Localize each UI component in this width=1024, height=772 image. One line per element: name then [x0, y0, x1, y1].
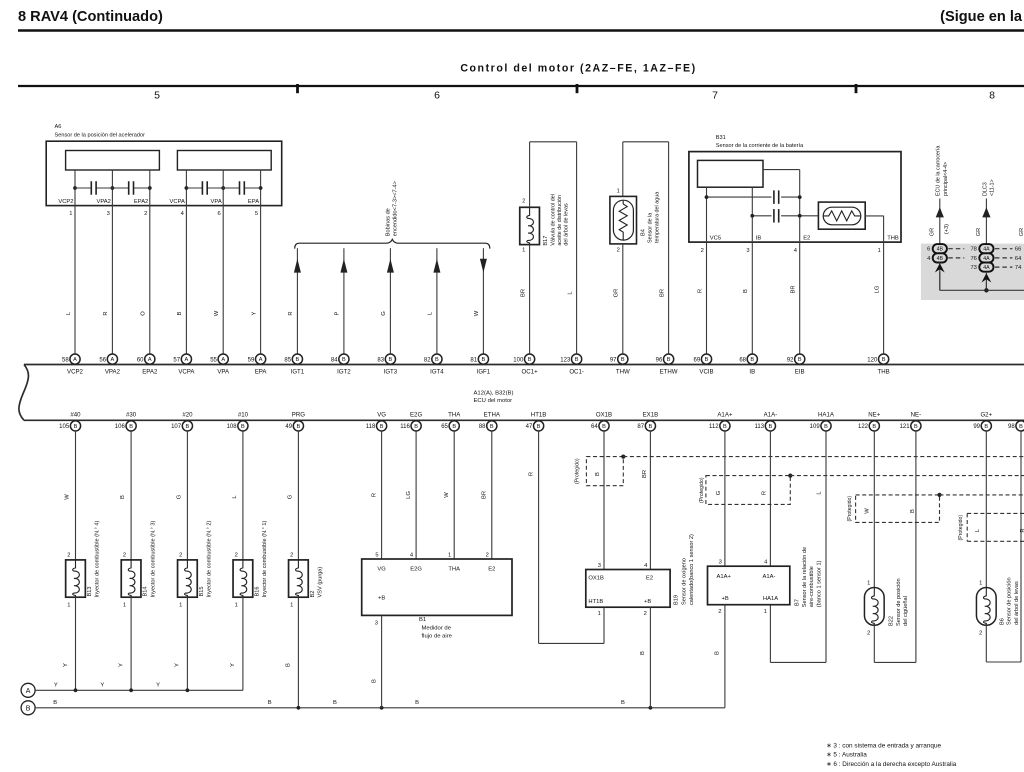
shaded connector panel [921, 244, 1024, 300]
svg-text:99: 99 [973, 424, 980, 430]
svg-text:B2: B2 [310, 591, 316, 598]
svg-text:85: 85 [284, 357, 291, 363]
B4 thermistor zigzag [619, 201, 627, 240]
svg-text:1: 1 [179, 603, 182, 609]
svg-text:R: R [528, 472, 534, 476]
A6 junction EPA [259, 186, 263, 190]
wire OC1- [576, 142, 578, 354]
wire B13 return [75, 597, 77, 690]
svg-text:Bobinas de: Bobinas de [385, 208, 391, 236]
svg-text:Sensor de posición: Sensor de posición [896, 578, 902, 626]
wire A6 VCP2 [74, 170, 76, 354]
wire IB internal [751, 187, 753, 354]
svg-text:+B: +B [644, 599, 651, 605]
svg-text:∗ 5 : Australia: ∗ 5 : Australia [826, 752, 867, 759]
wire to DLC3 [985, 199, 987, 245]
svg-text:THB: THB [878, 369, 890, 376]
svg-text:2: 2 [235, 552, 238, 558]
svg-text:112: 112 [709, 424, 719, 430]
terminal 68 IB [747, 354, 757, 364]
svg-text:Inyector de combustible (N.° 4: Inyector de combustible (N.° 4) [95, 521, 101, 598]
svg-text:1: 1 [522, 248, 525, 254]
wire B6 return [985, 625, 987, 662]
svg-text:81: 81 [470, 357, 477, 363]
svg-text:B: B [914, 424, 918, 430]
svg-text:5: 5 [375, 553, 378, 559]
svg-text:1: 1 [979, 580, 982, 586]
svg-text:GR: GR [929, 228, 935, 236]
wire 4A drop [985, 282, 987, 291]
svg-text:B: B [715, 651, 721, 655]
wire ETHW [668, 142, 670, 354]
svg-text:3: 3 [746, 248, 749, 254]
svg-text:8: 8 [989, 90, 995, 102]
wire B22 return [873, 625, 875, 662]
svg-text:THB: THB [887, 236, 899, 242]
node B [21, 701, 35, 715]
wire A6 EPA2 [149, 170, 151, 354]
svg-text:B: B [297, 424, 301, 430]
svg-text:G: G [381, 311, 387, 316]
svg-text:B: B [649, 424, 653, 430]
svg-text:2: 2 [486, 553, 489, 559]
svg-text:Control del motor (2AZ–FE, 1A: Control del motor (2AZ–FE, 1AZ–FE) [460, 63, 696, 75]
wire B1 E2G [415, 431, 417, 559]
svg-text:B1: B1 [419, 617, 426, 623]
arrow to DLC3 [982, 207, 990, 217]
junction bus A B15 [186, 688, 190, 692]
svg-text:B: B [984, 424, 988, 430]
terminal 99 G2+ [981, 421, 991, 431]
svg-text:106: 106 [115, 424, 126, 430]
svg-text:R: R [697, 289, 703, 293]
A6 capacitor between VCP2 and VPA2 [75, 187, 91, 189]
continuation 64 [995, 257, 1013, 259]
svg-text:Sensor de la corriente de la b: Sensor de la corriente de la batería [716, 143, 804, 149]
svg-text:A: A [148, 357, 152, 363]
terminal 57 VCPA [181, 354, 191, 364]
svg-text:B: B [602, 424, 606, 430]
svg-text:B19: B19 [674, 595, 680, 605]
svg-text:HT1B: HT1B [531, 412, 547, 419]
svg-text:B: B [452, 424, 456, 430]
svg-text:A: A [221, 357, 225, 363]
junction E2 row1 [798, 195, 802, 199]
svg-text:VCIB: VCIB [699, 369, 713, 376]
svg-text:2: 2 [144, 211, 147, 217]
svg-text:EX1B: EX1B [643, 412, 659, 419]
svg-text:B: B [120, 495, 126, 499]
terminal 121 NE- [911, 421, 921, 431]
terminal 109 HA1A [821, 421, 831, 431]
svg-text:LG: LG [406, 491, 412, 499]
svg-text:107: 107 [171, 424, 182, 430]
svg-text:B: B [910, 509, 916, 513]
terminal 58 VCP2 [70, 354, 80, 364]
A6 potentiometer block 2 [177, 151, 271, 171]
svg-text:2: 2 [290, 552, 293, 558]
svg-text:2: 2 [617, 247, 620, 253]
sensor B7 box [708, 566, 790, 605]
wire B1 E2 [491, 431, 493, 559]
svg-text:Inyector de combustible (N.° 3: Inyector de combustible (N.° 3) [150, 521, 156, 598]
svg-text:121: 121 [900, 424, 911, 430]
terminal 112 A1A+ [720, 421, 730, 431]
svg-text:1: 1 [764, 609, 767, 615]
svg-text:EPA: EPA [248, 199, 259, 205]
svg-text:B: B [342, 357, 346, 363]
svg-text:+B: +B [378, 595, 385, 601]
connector 4B pin 6 [933, 244, 947, 253]
wire B1 THA [453, 431, 455, 559]
sensor B4 box [610, 196, 637, 244]
svg-text:78: 78 [970, 247, 976, 253]
svg-text:R: R [762, 491, 768, 495]
svg-text:Y: Y [251, 311, 257, 315]
terminal 123 OC1- [572, 354, 582, 364]
svg-text:2: 2 [867, 630, 870, 636]
svg-text:Y: Y [156, 682, 160, 688]
svg-text:2: 2 [67, 552, 70, 558]
shield junction [937, 493, 941, 497]
svg-text:B: B [882, 357, 886, 363]
wire A6 EPA [260, 170, 262, 354]
svg-text:60: 60 [137, 357, 144, 363]
svg-text:(Protegido): (Protegido) [958, 515, 964, 541]
arrow IGT4 (to coils) [433, 259, 440, 273]
svg-text:OX1B: OX1B [588, 576, 604, 582]
terminal 106 #30 [126, 421, 136, 431]
svg-text:56: 56 [99, 357, 106, 363]
svg-text:B: B [241, 424, 245, 430]
svg-text:IB: IB [756, 236, 762, 242]
arrow IGF1 (from coils) [480, 259, 487, 273]
svg-text:84: 84 [331, 357, 338, 363]
svg-text:E2: E2 [646, 576, 653, 582]
svg-text:A1A-: A1A- [763, 574, 776, 580]
svg-text:EIB: EIB [795, 369, 805, 376]
svg-text:IGT3: IGT3 [384, 369, 398, 376]
svg-text:VCPA: VCPA [178, 369, 195, 376]
svg-text:B4: B4 [641, 229, 647, 236]
shield drain dashed to next page [940, 494, 1024, 496]
svg-text:3: 3 [719, 560, 722, 566]
svg-text:B: B [667, 357, 671, 363]
svg-text:1: 1 [617, 189, 620, 195]
svg-text:B: B [129, 424, 133, 430]
terminal 59 EPA [256, 354, 266, 364]
continuation 66 [995, 248, 1013, 250]
dashed link 4B row 1 [948, 248, 964, 250]
svg-text:A1A+: A1A+ [717, 412, 733, 419]
svg-text:82: 82 [424, 357, 431, 363]
svg-text:8 RAV4 (Continuado): 8 RAV4 (Continuado) [18, 9, 163, 25]
terminal 60 EPA2 [145, 354, 155, 364]
svg-text:B: B [872, 424, 876, 430]
connector 4B pin 4 [933, 253, 947, 262]
svg-text:GR: GR [1019, 228, 1024, 236]
junction bus B B19 [649, 706, 653, 710]
sensor B31 outer box [689, 152, 901, 243]
svg-text:B: B [1019, 424, 1023, 430]
B31 shunt resistor capsule [823, 207, 861, 225]
svg-text:Medidor de: Medidor de [422, 625, 452, 631]
svg-text:116: 116 [400, 424, 410, 430]
svg-text:P: P [335, 311, 341, 315]
junction panel bus [984, 288, 988, 292]
svg-text:Sensor de la: Sensor de la [648, 213, 654, 243]
svg-text:2: 2 [644, 611, 647, 617]
svg-text:IGT2: IGT2 [337, 369, 351, 376]
svg-text:Sensor de la posición del acel: Sensor de la posición del acelerador [55, 133, 146, 139]
svg-text:OX1B: OX1B [596, 412, 612, 419]
svg-text:122: 122 [858, 424, 869, 430]
svg-text:74: 74 [1015, 265, 1022, 271]
svg-text:IGT4: IGT4 [430, 369, 444, 376]
svg-text:VCPA: VCPA [170, 199, 185, 205]
terminal 108 #10 [238, 421, 248, 431]
arrow IGT1 (to coils) [294, 259, 301, 273]
svg-text:1: 1 [598, 611, 601, 617]
svg-text:#40: #40 [70, 412, 81, 419]
svg-text:NE-: NE- [911, 412, 922, 419]
svg-text:B: B [621, 357, 625, 363]
B31 inner module [698, 160, 764, 187]
svg-text:A6: A6 [55, 124, 62, 130]
junction E2 row2 [798, 214, 802, 218]
svg-text:59: 59 [248, 357, 255, 363]
svg-text:B: B [575, 357, 579, 363]
terminal 105 #40 [70, 421, 80, 431]
svg-text:G2+: G2+ [980, 412, 992, 419]
junction bus B B2 [297, 706, 301, 710]
A6 junction VPA [221, 186, 225, 190]
svg-text:Y: Y [54, 682, 58, 688]
A6 junction VPA2 [111, 186, 115, 190]
terminal 122 NE+ [869, 421, 879, 431]
svg-text:THA: THA [448, 566, 460, 572]
svg-text:B14: B14 [143, 587, 149, 597]
svg-text:A: A [259, 357, 263, 363]
svg-text:1: 1 [448, 553, 451, 559]
svg-text:ETHW: ETHW [660, 369, 678, 376]
wire 4B drop [939, 272, 941, 291]
terminal 96 ETHW [664, 354, 674, 364]
svg-text:68: 68 [739, 357, 746, 363]
svg-text:6: 6 [217, 211, 220, 217]
wire IGT3 [389, 248, 391, 354]
terminal 83 IGT3 [385, 354, 395, 364]
svg-text:A1A+: A1A+ [717, 574, 732, 580]
svg-text:B: B [723, 424, 727, 430]
svg-text:98: 98 [1008, 424, 1015, 430]
svg-text:IGF1: IGF1 [477, 369, 491, 376]
svg-text:3: 3 [598, 563, 601, 569]
svg-text:G: G [176, 494, 182, 499]
B31 cap row 1 [707, 196, 772, 198]
junction bus A B13 [74, 688, 78, 692]
terminal 98 G2- [1016, 421, 1024, 431]
continuation 74 [995, 266, 1013, 268]
svg-text:88: 88 [479, 424, 486, 430]
svg-text:Y: Y [230, 663, 236, 667]
svg-text:47: 47 [526, 424, 533, 430]
ground bus in panel [940, 289, 1024, 291]
svg-text:Inyector de combustible (N.° 1: Inyector de combustible (N.° 1) [262, 521, 268, 598]
svg-text:E2: E2 [488, 566, 495, 572]
terminal 47 HT1B [534, 421, 544, 431]
svg-text:VPA: VPA [211, 199, 222, 205]
wire G2- [1020, 431, 1022, 662]
sensor B22 [864, 588, 884, 626]
valve B17 body [520, 207, 540, 244]
svg-text:VC5: VC5 [710, 236, 721, 242]
svg-text:5: 5 [255, 211, 258, 217]
svg-text:B7: B7 [794, 599, 800, 606]
terminal 56 VPA2 [107, 354, 117, 364]
svg-text:1: 1 [69, 211, 72, 217]
shield box NE [856, 495, 940, 523]
svg-text:Sensor de la relación de: Sensor de la relación de [802, 547, 808, 607]
svg-text:W: W [65, 494, 71, 500]
svg-text:aire-combustible: aire-combustible [809, 566, 815, 607]
B31 resistor zigzag [823, 211, 860, 221]
shield junction [621, 455, 625, 459]
junction IB [750, 214, 754, 218]
svg-text:1: 1 [67, 603, 70, 609]
svg-text:BR: BR [642, 470, 648, 478]
wire B16 feed [242, 431, 244, 560]
svg-text:BR: BR [482, 491, 488, 499]
svg-text:1: 1 [867, 580, 870, 586]
B31 cap row 2 [752, 215, 771, 217]
terminal 120 THB [879, 354, 889, 364]
svg-text:58: 58 [62, 357, 69, 363]
svg-text:PRG: PRG [292, 412, 305, 419]
svg-text:#30: #30 [126, 412, 137, 419]
svg-text:del árbol de levas: del árbol de levas [1014, 581, 1020, 625]
wire B2 return [297, 597, 299, 708]
wire E2 internal [763, 169, 800, 171]
svg-text:3: 3 [107, 211, 110, 217]
arrow IGT2 (to coils) [340, 259, 347, 273]
shield junction [788, 474, 792, 478]
svg-text:IB: IB [749, 369, 755, 376]
svg-text:THA: THA [448, 412, 461, 419]
svg-text:VPA2: VPA2 [105, 369, 121, 376]
svg-text:flujo de aire: flujo de aire [422, 633, 453, 639]
connector 4A pin 73 [979, 263, 993, 272]
svg-text:120: 120 [867, 357, 878, 363]
bus A line [35, 689, 243, 691]
wire HT1B [538, 431, 540, 644]
svg-text:(Protegido): (Protegido) [847, 496, 853, 522]
svg-text:ETHA: ETHA [484, 412, 501, 419]
brace ignition coils [295, 239, 490, 248]
svg-text:R: R [1020, 528, 1024, 532]
svg-text:del cigüeñal: del cigüeñal [903, 596, 909, 626]
wire IGT2 [343, 248, 345, 354]
svg-text:B15: B15 [199, 587, 205, 597]
junction bus A B14 [129, 688, 133, 692]
wire A6 VCPA [185, 170, 187, 354]
connector arrow 4A [985, 272, 987, 291]
svg-text:105: 105 [59, 424, 70, 430]
svg-text:Y: Y [100, 682, 104, 688]
connector 4A pin 76 [979, 253, 993, 262]
svg-text:64: 64 [591, 424, 598, 430]
svg-text:Y: Y [118, 663, 124, 667]
svg-text:Y: Y [63, 663, 69, 667]
sensor B19 box [586, 570, 670, 608]
svg-text:1: 1 [878, 248, 881, 254]
svg-text:O: O [141, 311, 147, 316]
svg-text:calentado(banco 1 sensor 2): calentado(banco 1 sensor 2) [689, 534, 695, 605]
svg-text:(Protegido): (Protegido) [575, 458, 581, 484]
terminal 107 #20 [182, 421, 192, 431]
svg-text:OC1-: OC1- [569, 369, 584, 376]
grid tick 6-7 [576, 84, 579, 93]
svg-text:B: B [74, 424, 78, 430]
terminal 97 THW [618, 354, 628, 364]
svg-text:83: 83 [377, 357, 384, 363]
svg-text:2: 2 [179, 552, 182, 558]
wire B17 top jog [529, 142, 531, 208]
svg-text:R: R [288, 311, 294, 315]
injector B16 [233, 560, 253, 597]
terminal 82 IGT4 [432, 354, 442, 364]
svg-text:65: 65 [441, 424, 448, 430]
svg-text:E2G: E2G [410, 566, 422, 572]
svg-text:7: 7 [712, 90, 718, 102]
svg-text:55: 55 [210, 357, 217, 363]
wire B17 to OC1+ [529, 245, 531, 355]
svg-text:LG: LG [874, 285, 880, 293]
svg-text:2: 2 [123, 552, 126, 558]
svg-text:W: W [865, 508, 871, 514]
junction bus B B1 [380, 706, 384, 710]
wire B7 ground [724, 605, 726, 708]
svg-text:VCP2: VCP2 [67, 369, 84, 376]
svg-text:49: 49 [285, 424, 292, 430]
svg-text:principal<4-4>: principal<4-4> [943, 162, 949, 196]
sensor A6 outer box [46, 141, 282, 205]
terminal 116 E2G [411, 421, 421, 431]
svg-text:THW: THW [616, 369, 630, 376]
wire NE- [915, 431, 917, 663]
svg-text:B: B [53, 700, 57, 706]
svg-text:B: B [769, 424, 773, 430]
node A [21, 683, 35, 697]
wire to body ECU [939, 199, 941, 245]
svg-text:B: B [268, 700, 272, 706]
svg-text:B: B [414, 424, 418, 430]
wire B2 feed [297, 431, 299, 560]
svg-text:BR: BR [791, 285, 797, 293]
wire B1 ground [381, 615, 383, 707]
svg-text:ECU de la carrocería: ECU de la carrocería [936, 146, 942, 196]
svg-text:4B: 4B [937, 247, 944, 253]
svg-text:VG: VG [377, 412, 386, 419]
svg-text:6: 6 [927, 247, 930, 253]
svg-text:ECU del motor: ECU del motor [474, 398, 513, 404]
terminal 100 OC1+ [525, 354, 535, 364]
svg-text:VPA2: VPA2 [96, 199, 110, 205]
ECU band top line [24, 364, 1024, 366]
svg-text:A: A [73, 357, 77, 363]
grid tick 7-8 [855, 84, 858, 93]
svg-text:B: B [621, 700, 625, 706]
